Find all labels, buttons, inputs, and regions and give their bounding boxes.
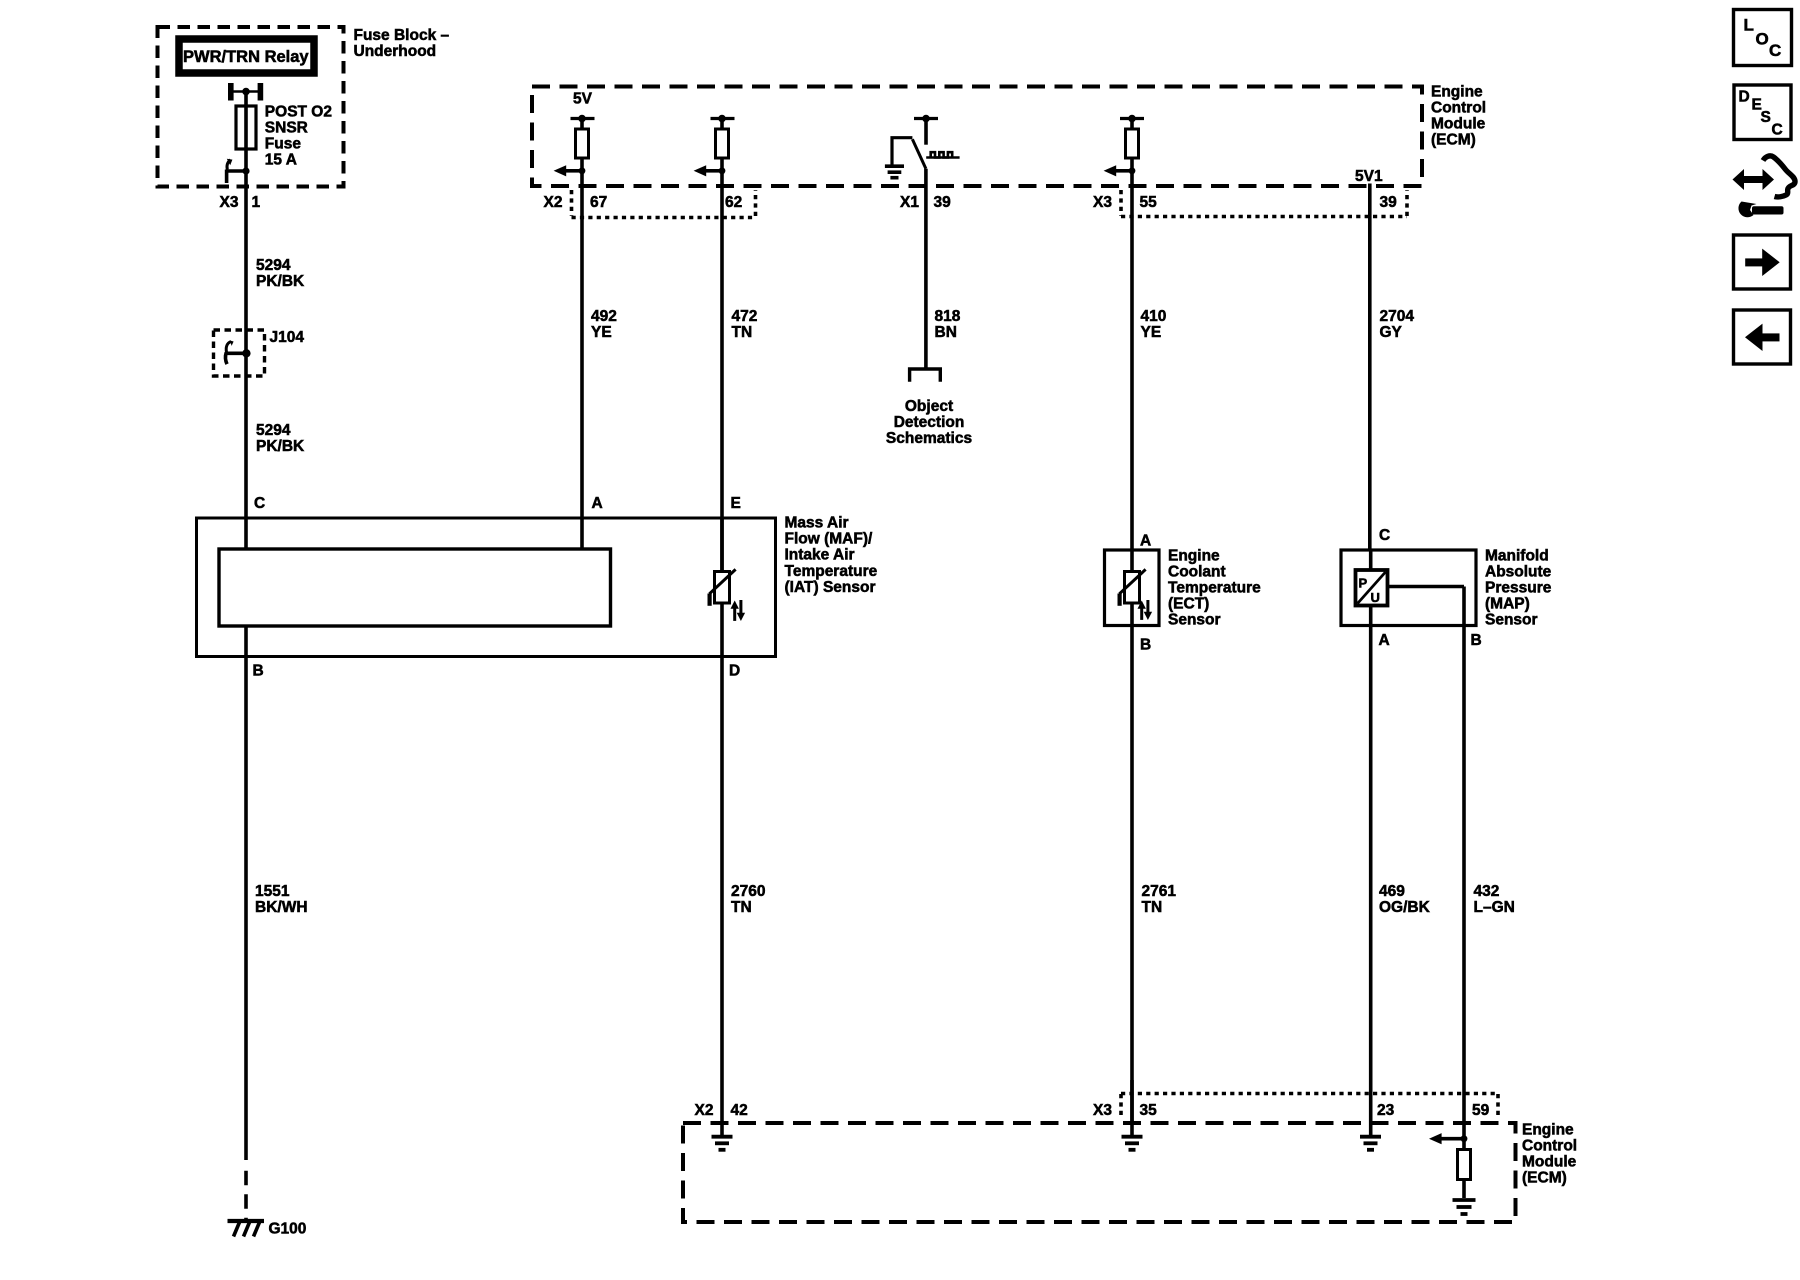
pressure transducer P/U (1369, 550, 1373, 570)
arrows up/down (IAT) (733, 607, 736, 621)
svg-text:Engine: Engine (1168, 547, 1220, 564)
svg-text:(MAP): (MAP) (1485, 596, 1530, 613)
wire into pin 35 (1130, 1080, 1134, 1135)
svg-text:X1: X1 (900, 194, 919, 211)
svg-text:(ECM): (ECM) (1431, 132, 1476, 149)
svg-text:Object: Object (905, 398, 953, 415)
svg-text:L–GN: L–GN (1474, 899, 1515, 916)
node tick pin 39 (X1) (914, 117, 938, 120)
svg-text:35: 35 (1140, 1102, 1158, 1119)
svg-text:Absolute: Absolute (1485, 563, 1552, 580)
svg-text:Mass Air: Mass Air (785, 515, 849, 532)
svg-text:Coolant: Coolant (1168, 563, 1226, 580)
svg-text:Engine: Engine (1431, 83, 1483, 100)
ECM box (bottom) (683, 1123, 1516, 1222)
off-page connector bracket (910, 369, 941, 382)
svg-text:A: A (1140, 533, 1151, 550)
ECM box (top) (532, 87, 1422, 187)
svg-text:2704: 2704 (1380, 308, 1415, 325)
svg-text:J104: J104 (270, 329, 305, 346)
svg-text:YE: YE (591, 324, 612, 341)
svg-text:C: C (1772, 121, 1783, 138)
svg-text:Sensor: Sensor (1485, 612, 1538, 629)
svg-text:BK/WH: BK/WH (255, 899, 308, 916)
switch (driver to ground, pin 39) (892, 138, 912, 165)
svg-text:X3: X3 (1093, 194, 1112, 211)
wire 492 YE (580, 187, 584, 550)
icon arrow next (1734, 235, 1791, 289)
icon DESC (1734, 85, 1791, 140)
svg-text:U: U (1371, 590, 1380, 605)
svg-text:818: 818 (935, 308, 961, 325)
ground (ECM pin 59 internal) (1453, 1198, 1476, 1202)
relay contact switch (242, 167, 249, 174)
svg-text:TN: TN (731, 899, 752, 916)
svg-text:432: 432 (1474, 883, 1500, 900)
svg-text:410: 410 (1141, 308, 1167, 325)
svg-text:(ECM): (ECM) (1522, 1170, 1567, 1187)
svg-text:5V1: 5V1 (1355, 168, 1383, 185)
resistor (ECM pin 67 pull-up) (576, 129, 589, 158)
svg-text:Temperature: Temperature (785, 563, 878, 580)
node tick pin 62 (711, 117, 735, 120)
svg-text:X2: X2 (695, 1102, 714, 1119)
svg-text:Control: Control (1522, 1137, 1577, 1154)
svg-text:A: A (592, 495, 603, 512)
icon swap/wrench (1740, 176, 1767, 183)
svg-text:B: B (253, 663, 264, 680)
thermistor ECT (1130, 550, 1134, 572)
ground (ECM pin 23) (1369, 1123, 1373, 1135)
svg-text:23: 23 (1377, 1102, 1395, 1119)
svg-text:5294: 5294 (256, 422, 291, 439)
svg-text:O: O (1756, 29, 1769, 48)
svg-text:YE: YE (1141, 324, 1162, 341)
svg-text:(ECT): (ECT) (1168, 596, 1209, 613)
ground (ECM pin 42) (720, 1123, 724, 1135)
svg-text:B: B (1471, 632, 1482, 649)
ECT sensor box (1105, 550, 1160, 626)
svg-text:PK/BK: PK/BK (256, 438, 305, 455)
arrows up/down (ECT) (1140, 607, 1143, 620)
svg-text:X2: X2 (544, 194, 563, 211)
arrow (signal in, pin 59) (1462, 1123, 1466, 1150)
svg-text:C: C (1769, 41, 1781, 60)
svg-text:E: E (731, 495, 741, 512)
svg-text:5294: 5294 (256, 257, 291, 274)
svg-text:G100: G100 (269, 1221, 307, 1238)
svg-text:Pressure: Pressure (1485, 580, 1552, 597)
svg-text:S: S (1761, 109, 1771, 126)
svg-text:5V: 5V (573, 91, 593, 108)
wire relay to fuse (244, 92, 248, 107)
svg-text:OG/BK: OG/BK (1379, 899, 1431, 916)
svg-text:Sensor: Sensor (1168, 612, 1221, 629)
svg-text:2761: 2761 (1142, 883, 1177, 900)
connector box X2 (dotted) (572, 190, 756, 218)
splice J104 (214, 330, 265, 376)
svg-text:A: A (1379, 632, 1390, 649)
node tick pin 55 (1120, 117, 1144, 120)
svg-text:Flow (MAF)/: Flow (MAF)/ (785, 531, 874, 548)
svg-text:62: 62 (725, 194, 742, 211)
svg-text:492: 492 (591, 308, 617, 325)
ground (ECM pin 35) (1122, 1135, 1143, 1139)
svg-text:472: 472 (732, 308, 758, 325)
svg-text:TN: TN (1142, 899, 1163, 916)
svg-text:Engine: Engine (1522, 1121, 1574, 1138)
svg-text:POST O2: POST O2 (265, 104, 332, 121)
connector box X3 (dotted, bottom) (1121, 1094, 1498, 1118)
svg-text:X3: X3 (220, 194, 239, 211)
svg-text:BN: BN (935, 324, 957, 341)
svg-text:D: D (729, 663, 740, 680)
svg-text:15 A: 15 A (265, 152, 297, 169)
arrow (signal out, pin 67) (579, 167, 586, 174)
svg-text:2760: 2760 (731, 883, 765, 900)
svg-text:SNSR: SNSR (265, 120, 308, 137)
wire 5294 PK/BK (upper) (244, 171, 248, 331)
svg-text:1551: 1551 (255, 883, 290, 900)
PWM square wave symbol (926, 156, 959, 159)
svg-text:GY: GY (1380, 324, 1403, 341)
icon arrow back (1734, 310, 1791, 364)
wire 2761 TN (1130, 626, 1134, 1124)
svg-text:55: 55 (1140, 194, 1158, 211)
fuse holder clip (231, 83, 261, 101)
svg-text:C: C (1379, 527, 1390, 544)
svg-text:39: 39 (1380, 194, 1398, 211)
svg-text:PWR/TRN Relay: PWR/TRN Relay (183, 48, 309, 66)
MAP sensor box (1341, 550, 1476, 626)
svg-text:D: D (1739, 89, 1750, 106)
connector box X3 (dotted) (1121, 190, 1407, 217)
icon LOC (1734, 10, 1792, 66)
wire 5294 PK/BK (lower) (244, 376, 248, 549)
svg-text:Fuse: Fuse (265, 136, 302, 153)
svg-text:469: 469 (1379, 883, 1405, 900)
svg-text:X3: X3 (1093, 1102, 1112, 1119)
svg-text:Module: Module (1522, 1154, 1577, 1171)
svg-text:Schematics: Schematics (886, 430, 972, 447)
wire pin 39 down (924, 169, 928, 369)
arrow (signal out, pin 62) (719, 167, 726, 174)
svg-text:(IAT) Sensor: (IAT) Sensor (785, 579, 876, 596)
svg-text:59: 59 (1472, 1102, 1490, 1119)
MAF internal module box (219, 549, 611, 626)
svg-text:TN: TN (732, 324, 753, 341)
wire 472 TN (720, 187, 724, 572)
svg-text:L: L (1744, 16, 1754, 35)
dashed wire to G100 (244, 1171, 248, 1222)
relay PWR/TRN Relay (179, 39, 314, 73)
svg-text:39: 39 (934, 194, 952, 211)
resistor (ECM pin 62 pull-up) (716, 129, 729, 158)
ground G100 (chassis) (228, 1219, 265, 1223)
internal tap to pin B (1388, 585, 1465, 589)
thermistor IAT (720, 517, 724, 572)
svg-text:67: 67 (590, 194, 607, 211)
svg-text:Module: Module (1431, 116, 1486, 133)
MAF/IAT sensor box (197, 518, 776, 657)
wire 2704 GY (1368, 187, 1372, 550)
svg-text:42: 42 (731, 1102, 748, 1119)
svg-text:Detection: Detection (894, 414, 965, 431)
wire 2760 TN (720, 657, 724, 1123)
svg-text:Underhood: Underhood (354, 43, 437, 60)
svg-text:C: C (254, 495, 265, 512)
arrow (signal out, pin 55) (1129, 167, 1136, 174)
fuse F: POST O2 SNSR Fuse 15 A (236, 106, 256, 149)
wire 410 YE (1130, 187, 1134, 550)
svg-text:P: P (1359, 576, 1368, 591)
wire 1551 BK/WH (244, 626, 248, 1160)
fuse block box (Fuse Block - Underhood) (158, 27, 344, 187)
svg-text:B: B (1140, 637, 1151, 654)
ground (switch) (885, 164, 904, 168)
svg-text:Control: Control (1431, 99, 1486, 116)
resistor (ECM pin 59) (1458, 1150, 1471, 1180)
svg-text:1: 1 (252, 194, 261, 211)
svg-text:Intake Air: Intake Air (785, 547, 855, 564)
resistor (ECM pin 55 pull-up) (1126, 129, 1139, 158)
svg-text:Manifold: Manifold (1485, 547, 1549, 564)
svg-text:PK/BK: PK/BK (256, 273, 305, 290)
svg-text:Temperature: Temperature (1168, 580, 1261, 597)
svg-text:Fuse Block –: Fuse Block – (354, 27, 450, 44)
